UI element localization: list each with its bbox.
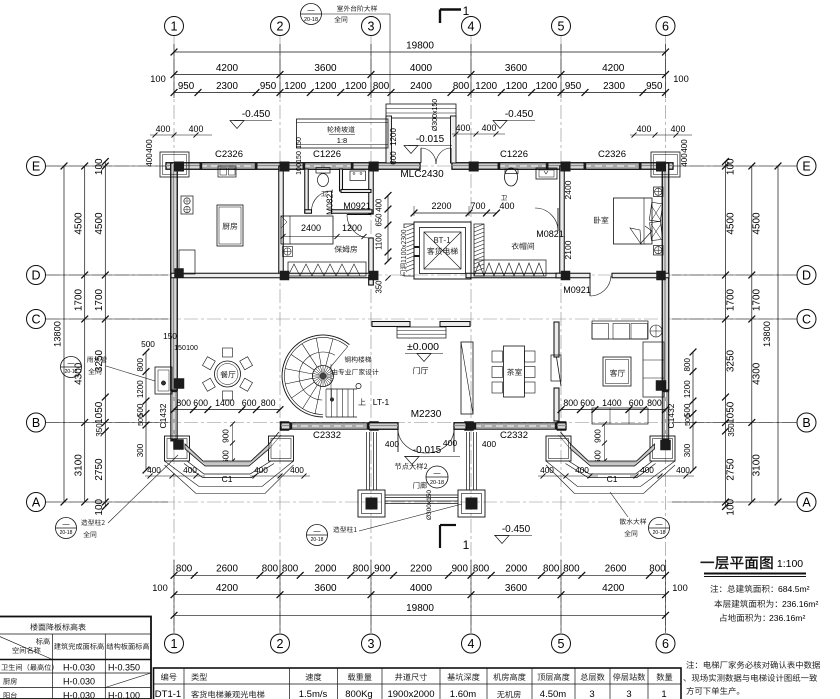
foyer entry steps <box>397 327 446 338</box>
svg-text:1200: 1200 <box>506 81 528 92</box>
note floor area <box>714 600 777 608</box>
porch pillar lines left <box>366 432 368 490</box>
toilet 2 <box>505 168 518 186</box>
rotated dims right bay 900 600 <box>593 429 603 443</box>
columns right wall mid <box>656 380 667 391</box>
svg-text:1: 1 <box>463 538 470 552</box>
terrace right apron2 <box>546 465 675 494</box>
svg-text:13800: 13800 <box>762 321 772 347</box>
svg-text:950: 950 <box>260 81 277 92</box>
dim row 2200 700 400 <box>414 212 497 214</box>
svg-text:—: — <box>434 470 441 477</box>
svg-text:1200: 1200 <box>683 380 692 398</box>
kitchen stove <box>181 196 193 214</box>
wall left exterior <box>171 163 178 390</box>
svg-text:4: 4 <box>468 637 475 651</box>
svg-text:400: 400 <box>443 438 457 448</box>
svg-text:400: 400 <box>189 124 204 134</box>
svg-text:800Kg: 800Kg <box>345 689 372 699</box>
bottom dimension total 19800 <box>174 614 666 616</box>
svg-text:D: D <box>31 269 40 283</box>
closet nanny zigzag <box>288 264 360 276</box>
svg-text:400: 400 <box>482 123 497 133</box>
svg-text:C2332: C2332 <box>500 430 528 441</box>
sofa right chaise <box>643 342 664 397</box>
label BT-1 <box>434 237 450 243</box>
porch beam lines <box>385 494 458 496</box>
wall cloak south row D <box>466 273 563 278</box>
top dimension extension lines <box>173 44 175 98</box>
columns row E <box>174 162 184 172</box>
planter left bay west <box>165 436 190 461</box>
svg-text:±0.000: ±0.000 <box>407 341 439 353</box>
svg-text:2: 2 <box>277 637 284 651</box>
svg-text:Ø300x150: Ø300x150 <box>426 490 433 520</box>
svg-text:2750: 2750 <box>94 458 105 481</box>
svg-text:3: 3 <box>368 20 375 34</box>
label living room <box>610 369 625 376</box>
svg-text:1900x2000: 1900x2000 <box>387 689 434 699</box>
svg-text:19800: 19800 <box>406 41 434 52</box>
side table circle <box>650 325 662 337</box>
svg-text:2300: 2300 <box>216 81 238 92</box>
svg-text:2750: 2750 <box>726 458 737 481</box>
label shaft size rotated <box>399 228 407 272</box>
top dimension total 19800 <box>174 51 666 53</box>
toilet bath1 <box>316 168 330 174</box>
callout stair detail top <box>301 4 322 25</box>
svg-text:400: 400 <box>680 139 689 153</box>
closet hatch strip right of elevator <box>474 224 484 276</box>
bay band stub to column right <box>561 432 571 444</box>
label wash 2 <box>501 195 507 200</box>
svg-text:950: 950 <box>646 81 663 92</box>
svg-text:400: 400 <box>540 465 554 475</box>
svg-text:4200: 4200 <box>602 583 625 594</box>
svg-text:800: 800 <box>563 564 580 575</box>
svg-text:-0.450: -0.450 <box>242 109 271 120</box>
svg-text:1400: 1400 <box>602 398 622 408</box>
svg-text:1200: 1200 <box>136 380 145 398</box>
kitchen island <box>217 205 243 246</box>
svg-text:150: 150 <box>296 137 303 149</box>
dining table round <box>215 361 241 387</box>
callout leader to porch <box>322 13 391 15</box>
table header label <box>30 623 85 630</box>
svg-text:1700: 1700 <box>94 288 105 311</box>
svg-text:C: C <box>802 313 811 327</box>
label elevator CJK <box>427 247 458 254</box>
svg-text:B: B <box>32 416 40 430</box>
sofa top row <box>592 321 648 339</box>
svg-text:1100: 1100 <box>375 232 384 249</box>
right dimension extension lines <box>672 165 797 167</box>
wall cloak-bedroom axis 5 <box>560 166 565 275</box>
elevator cab with cross <box>424 232 461 269</box>
svg-text:684.5m²: 684.5m² <box>778 584 810 594</box>
note elevator vendor <box>686 661 820 669</box>
svg-text:C2326: C2326 <box>215 149 243 160</box>
kitchen counter lower <box>179 250 195 274</box>
svg-text:4500: 4500 <box>94 212 105 235</box>
wall top row E right section <box>452 163 673 170</box>
living door leaf <box>557 357 562 386</box>
porch pillar lines right <box>466 432 468 490</box>
svg-text:800: 800 <box>136 358 145 372</box>
svg-text:150: 150 <box>174 345 186 352</box>
svg-text:2000: 2000 <box>505 564 527 575</box>
ramp box <box>297 119 389 148</box>
door arc cloakroom <box>535 208 558 231</box>
svg-text:—: — <box>68 360 75 367</box>
grid bubbles numbers top <box>165 17 184 36</box>
rotated 400 pair right edge <box>680 139 689 153</box>
ramp label <box>327 126 354 132</box>
svg-text:800: 800 <box>261 398 276 408</box>
rain pipe box <box>155 367 172 394</box>
svg-text:100: 100 <box>94 498 105 515</box>
label M0821 rotated <box>325 189 335 215</box>
svg-text:19800: 19800 <box>406 603 434 614</box>
svg-text:500: 500 <box>685 414 692 426</box>
rotated 400 pair left edge <box>145 139 154 153</box>
svg-text:3250: 3250 <box>726 349 737 372</box>
svg-text:800: 800 <box>647 398 662 408</box>
svg-text:-0.450: -0.450 <box>502 524 531 535</box>
label up LT-1 <box>358 398 365 405</box>
svg-text:2: 2 <box>277 20 284 34</box>
svg-text:4500: 4500 <box>752 212 763 235</box>
door M0921 bedroom arc <box>589 278 591 296</box>
svg-text:C1226: C1226 <box>313 149 341 160</box>
porch top platform steps <box>386 104 456 118</box>
svg-text:4500: 4500 <box>726 212 737 235</box>
porch rotated dim 1200 600 <box>389 128 398 146</box>
left dimension extension lines <box>46 165 168 167</box>
svg-text:600: 600 <box>580 398 595 408</box>
corner pier box right <box>651 152 680 177</box>
svg-text:400: 400 <box>575 465 589 475</box>
bottom dimension fine <box>174 574 666 576</box>
svg-text:400: 400 <box>640 465 654 475</box>
left rotated dim chain outside <box>145 352 147 470</box>
door MLC2430 double arcs <box>420 148 422 163</box>
svg-text:5: 5 <box>558 20 565 34</box>
terrace left apron2 <box>165 465 294 494</box>
svg-text:800: 800 <box>473 564 490 575</box>
svg-text:1:8: 1:8 <box>337 136 347 145</box>
foyer north wall stubs <box>372 322 410 327</box>
svg-text:2400: 2400 <box>301 223 321 233</box>
svg-text:800: 800 <box>262 564 279 575</box>
bedside table top <box>654 187 664 197</box>
svg-text:1700: 1700 <box>752 288 763 311</box>
svg-text:-0.450: -0.450 <box>505 109 534 120</box>
svg-text:900: 900 <box>374 564 391 575</box>
vertical dim 2400 cloak <box>563 180 573 199</box>
tv cabinet living <box>551 355 561 381</box>
svg-text:M0821: M0821 <box>536 229 564 239</box>
label bedroom <box>594 216 608 223</box>
svg-text:400: 400 <box>499 201 514 211</box>
label stair maker <box>332 369 379 375</box>
svg-text:C2332: C2332 <box>313 430 341 441</box>
table col heads <box>36 638 50 645</box>
svg-text:3600: 3600 <box>505 583 528 594</box>
svg-text:2600: 2600 <box>216 564 238 575</box>
svg-text:1200: 1200 <box>315 81 337 92</box>
svg-text:1700: 1700 <box>74 288 85 311</box>
svg-text:2400: 2400 <box>563 180 573 199</box>
tea table <box>504 346 525 397</box>
bottom dimension bays <box>174 594 666 596</box>
svg-text:20-18: 20-18 <box>65 369 78 375</box>
svg-text:100: 100 <box>152 583 168 593</box>
label C1432 left rotated <box>158 403 168 428</box>
closet hatch strip left of elevator <box>404 224 414 276</box>
svg-text:100: 100 <box>672 583 688 593</box>
svg-text:H-0.030: H-0.030 <box>63 677 95 687</box>
wall bath west <box>305 169 309 213</box>
door M0921 hall leaf and arc <box>347 214 371 216</box>
svg-text:350: 350 <box>375 280 384 294</box>
label detail joint 2 <box>395 463 427 470</box>
wall nanny north <box>305 210 312 214</box>
svg-text:—: — <box>314 528 321 535</box>
svg-text:2400: 2400 <box>410 81 432 92</box>
columns row B <box>280 421 290 431</box>
bay band stub to column left <box>269 432 279 444</box>
svg-text:400: 400 <box>385 439 399 449</box>
terrace left edge double <box>187 461 271 474</box>
svg-text:400: 400 <box>156 124 171 134</box>
svg-text:100: 100 <box>296 163 303 175</box>
svg-text:1: 1 <box>661 689 666 699</box>
svg-text:100: 100 <box>150 74 166 84</box>
svg-text:1200: 1200 <box>535 81 557 92</box>
elevator door gap <box>414 246 420 248</box>
svg-text:2200: 2200 <box>431 201 451 211</box>
svg-text:3: 3 <box>589 689 594 699</box>
svg-text:800: 800 <box>176 398 191 408</box>
grid axis lines <box>46 36 797 634</box>
svg-text:4000: 4000 <box>410 583 433 594</box>
svg-text:3100: 3100 <box>74 454 85 477</box>
window C1432 left bay <box>171 390 178 441</box>
svg-text:1: 1 <box>171 637 178 651</box>
svg-text:700: 700 <box>470 201 485 211</box>
svg-text:4000: 4000 <box>410 63 433 74</box>
svg-text:4.50m: 4.50m <box>540 689 566 699</box>
svg-text:3: 3 <box>368 637 375 651</box>
wall top row E left section <box>166 163 420 170</box>
wall row B left segment <box>281 423 290 430</box>
svg-text:1200: 1200 <box>342 223 362 233</box>
corner pier box left <box>160 152 189 177</box>
columns left wall mid <box>174 378 185 389</box>
coffee table living <box>603 357 631 386</box>
svg-text:5: 5 <box>558 637 565 651</box>
svg-text:650: 650 <box>375 213 384 227</box>
label C1432 right rotated <box>666 403 676 428</box>
svg-text:100: 100 <box>673 74 689 84</box>
svg-text:20-18: 20-18 <box>304 17 318 23</box>
bedside table bottom <box>654 246 664 256</box>
wall sink niche <box>340 169 343 191</box>
svg-text:400: 400 <box>145 153 154 167</box>
svg-text:C2326: C2326 <box>598 149 626 160</box>
dim row 800-600-1400-600-800 left <box>174 409 280 411</box>
svg-text:H-0.030: H-0.030 <box>63 663 95 673</box>
window C1226 top-left <box>303 163 353 170</box>
svg-text:1200: 1200 <box>284 81 306 92</box>
left dimension bays <box>84 166 86 502</box>
bay window C1 left faceted band <box>185 444 269 466</box>
svg-text:M2230: M2230 <box>411 409 442 420</box>
svg-text:6: 6 <box>662 637 669 651</box>
svg-text:236.16m²: 236.16m² <box>769 613 805 623</box>
svg-text:—: — <box>308 7 315 14</box>
wall kitchen south row D <box>171 273 283 278</box>
svg-text:-0.015: -0.015 <box>416 134 445 145</box>
svg-text:2100: 2100 <box>563 240 573 259</box>
stair straight flight <box>326 388 357 390</box>
svg-text:800: 800 <box>453 81 470 92</box>
title first floor plan <box>701 556 773 569</box>
grid bubbles letters left <box>27 157 46 176</box>
wall hall stub below axis3 <box>369 275 374 285</box>
svg-text:20-18: 20-18 <box>430 480 444 486</box>
spiral stair eye <box>313 366 334 387</box>
svg-text:950: 950 <box>178 81 195 92</box>
closet cloak zigzag <box>474 260 546 276</box>
note site area <box>720 614 764 622</box>
note total area <box>710 585 721 593</box>
right dimension fine <box>725 162 727 507</box>
wall row B center-left segment <box>369 423 398 430</box>
svg-text:MLC2430: MLC2430 <box>400 169 444 180</box>
living west wall <box>554 322 559 357</box>
bottom dimension extension lines <box>173 560 175 633</box>
svg-text:C1: C1 <box>222 474 233 484</box>
svg-text:400: 400 <box>254 465 268 475</box>
left dimension total 13800 <box>63 166 65 502</box>
detail bubble porch <box>426 466 448 488</box>
wall on axis 3 <box>369 166 374 214</box>
svg-text:400: 400 <box>145 139 154 153</box>
svg-text:800: 800 <box>353 564 370 575</box>
svg-text:4200: 4200 <box>216 583 239 594</box>
svg-text:C1: C1 <box>607 474 618 484</box>
callout rain pipe <box>87 356 107 362</box>
svg-text:Ø300x150: Ø300x150 <box>432 99 439 131</box>
dining chairs <box>223 348 233 357</box>
wall nanny south row D <box>283 273 375 278</box>
window C2326 top-left <box>200 163 257 170</box>
svg-text:2300: 2300 <box>603 81 625 92</box>
section mark bottom <box>440 524 456 526</box>
terrace right apron1 <box>546 461 675 487</box>
svg-text:M0921: M0921 <box>563 285 591 295</box>
svg-text:C1432: C1432 <box>158 403 168 428</box>
grid bubbles numbers bottom <box>165 634 184 653</box>
svg-text:3600: 3600 <box>314 583 337 594</box>
svg-text:1050: 1050 <box>726 401 737 424</box>
svg-text:600: 600 <box>389 151 398 165</box>
svg-text:150: 150 <box>296 151 303 163</box>
rotated dims left bay 900 600 <box>221 429 231 443</box>
svg-text:950: 950 <box>565 81 582 92</box>
table elevator spec <box>154 668 682 699</box>
svg-text:100: 100 <box>186 345 198 352</box>
dim row 800-600-1400-600-800 right <box>561 409 666 411</box>
label foyer <box>413 367 428 374</box>
window C2326 top-right <box>584 163 641 170</box>
svg-text:2200: 2200 <box>410 564 432 575</box>
svg-text:350: 350 <box>727 423 736 437</box>
svg-text:3600: 3600 <box>505 63 528 74</box>
sink 2 <box>536 168 557 179</box>
section mark top <box>440 8 461 10</box>
right dimension total 13800 <box>777 166 779 502</box>
svg-text:M0921: M0921 <box>343 201 371 211</box>
svg-text:3600: 3600 <box>314 63 337 74</box>
svg-text:400: 400 <box>290 465 304 475</box>
svg-text:C: C <box>31 313 40 327</box>
table row balcony <box>4 692 17 699</box>
label tea room <box>507 368 522 375</box>
columns row D <box>174 268 184 278</box>
porch top side walls <box>386 116 392 163</box>
screen partition <box>461 342 473 414</box>
svg-text:1200: 1200 <box>475 81 497 92</box>
svg-text:1:100: 1:100 <box>777 558 803 570</box>
svg-text:400: 400 <box>680 153 689 167</box>
window C2332 left <box>290 423 369 430</box>
svg-text:-0.015: -0.015 <box>413 445 442 456</box>
top dimension bays <box>174 74 666 76</box>
svg-text:13800: 13800 <box>53 321 63 347</box>
bed bedroom <box>614 198 653 244</box>
svg-text:—: — <box>63 521 70 528</box>
wall right exterior upper <box>662 163 669 390</box>
nanny dim line <box>283 236 364 238</box>
svg-text:100: 100 <box>94 158 105 175</box>
ramp rotated dims <box>296 137 303 149</box>
right dimension bays <box>751 166 753 502</box>
svg-text:900: 900 <box>593 429 603 443</box>
svg-text:1.60m: 1.60m <box>450 689 476 699</box>
sofa bottom row <box>592 408 648 424</box>
svg-text:3: 3 <box>626 689 631 699</box>
bay window C1 right faceted band <box>571 444 655 466</box>
tea chairs <box>492 351 503 362</box>
svg-text:1700: 1700 <box>726 288 737 311</box>
callout splash apron <box>620 518 647 524</box>
svg-text:4200: 4200 <box>216 63 239 74</box>
svg-text:A: A <box>32 496 41 510</box>
door M2230 double arcs <box>397 429 399 452</box>
svg-text:4200: 4200 <box>602 63 625 74</box>
kitchen sink <box>218 166 236 177</box>
window M2230 opening jambs <box>454 423 466 430</box>
svg-text:800: 800 <box>683 358 692 372</box>
svg-text:300: 300 <box>683 443 692 457</box>
label wash 1 <box>321 191 327 196</box>
svg-text:H-0.100: H-0.100 <box>108 691 140 699</box>
bedside nanny <box>283 247 293 257</box>
svg-text:LT-1: LT-1 <box>373 397 390 407</box>
